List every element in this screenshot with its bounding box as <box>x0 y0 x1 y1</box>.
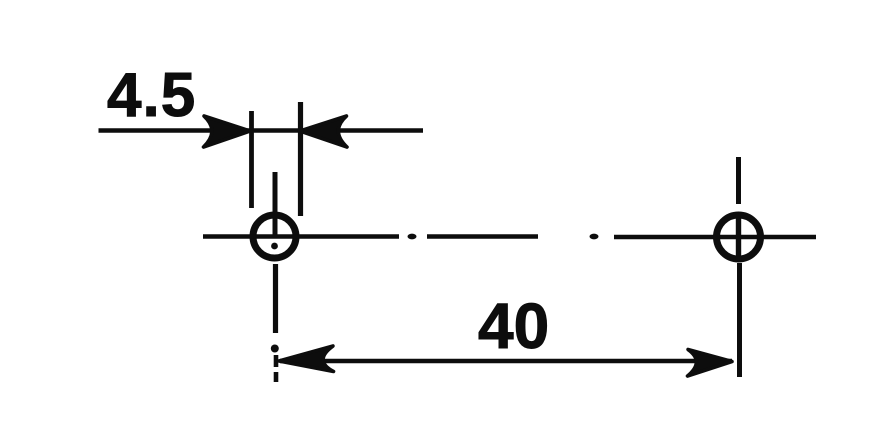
horizontal centerline dot 1 <box>408 234 417 240</box>
horizontal centerline dot 2 <box>590 234 599 240</box>
hole H2 vertical centerline lower segment <box>737 263 742 377</box>
hole H1 lower centerline dot <box>271 345 279 353</box>
hole H1 centerline dash at dimension line <box>274 355 279 367</box>
arrowhead left-pointing (40 left) <box>279 346 334 372</box>
hole H1 vertical centerline lower segment <box>273 264 278 333</box>
hole H1 circle (left) <box>253 215 296 258</box>
arrowhead left-pointing (4.5 right) <box>300 116 347 147</box>
svg-text:4.5: 4.5 <box>107 61 196 130</box>
horizontal centerline long dash 2 <box>427 234 538 238</box>
svg-text:40: 40 <box>478 290 549 362</box>
arrowhead right-pointing (40 right) <box>688 350 733 377</box>
hole H2 inner vertical centerline <box>736 217 741 261</box>
hole H2 circle (right) <box>717 215 761 259</box>
hole H1 vertical centerline upper dash <box>273 172 278 236</box>
extension line right (hole edge) <box>298 102 303 216</box>
dimension line 4.5 <box>99 128 424 133</box>
dimension line 40 <box>280 359 732 363</box>
hole H1 centerline dash below dimension line <box>274 372 279 382</box>
hole H1 centerline dot <box>271 243 278 250</box>
horizontal centerline long dash 1 <box>203 234 399 238</box>
horizontal centerline long dash 3 <box>614 235 816 239</box>
hole H2 vertical centerline upper dash <box>736 157 741 204</box>
arrowhead right-pointing (4.5 left) <box>204 116 251 147</box>
extension line left (hole edge) <box>249 111 254 208</box>
